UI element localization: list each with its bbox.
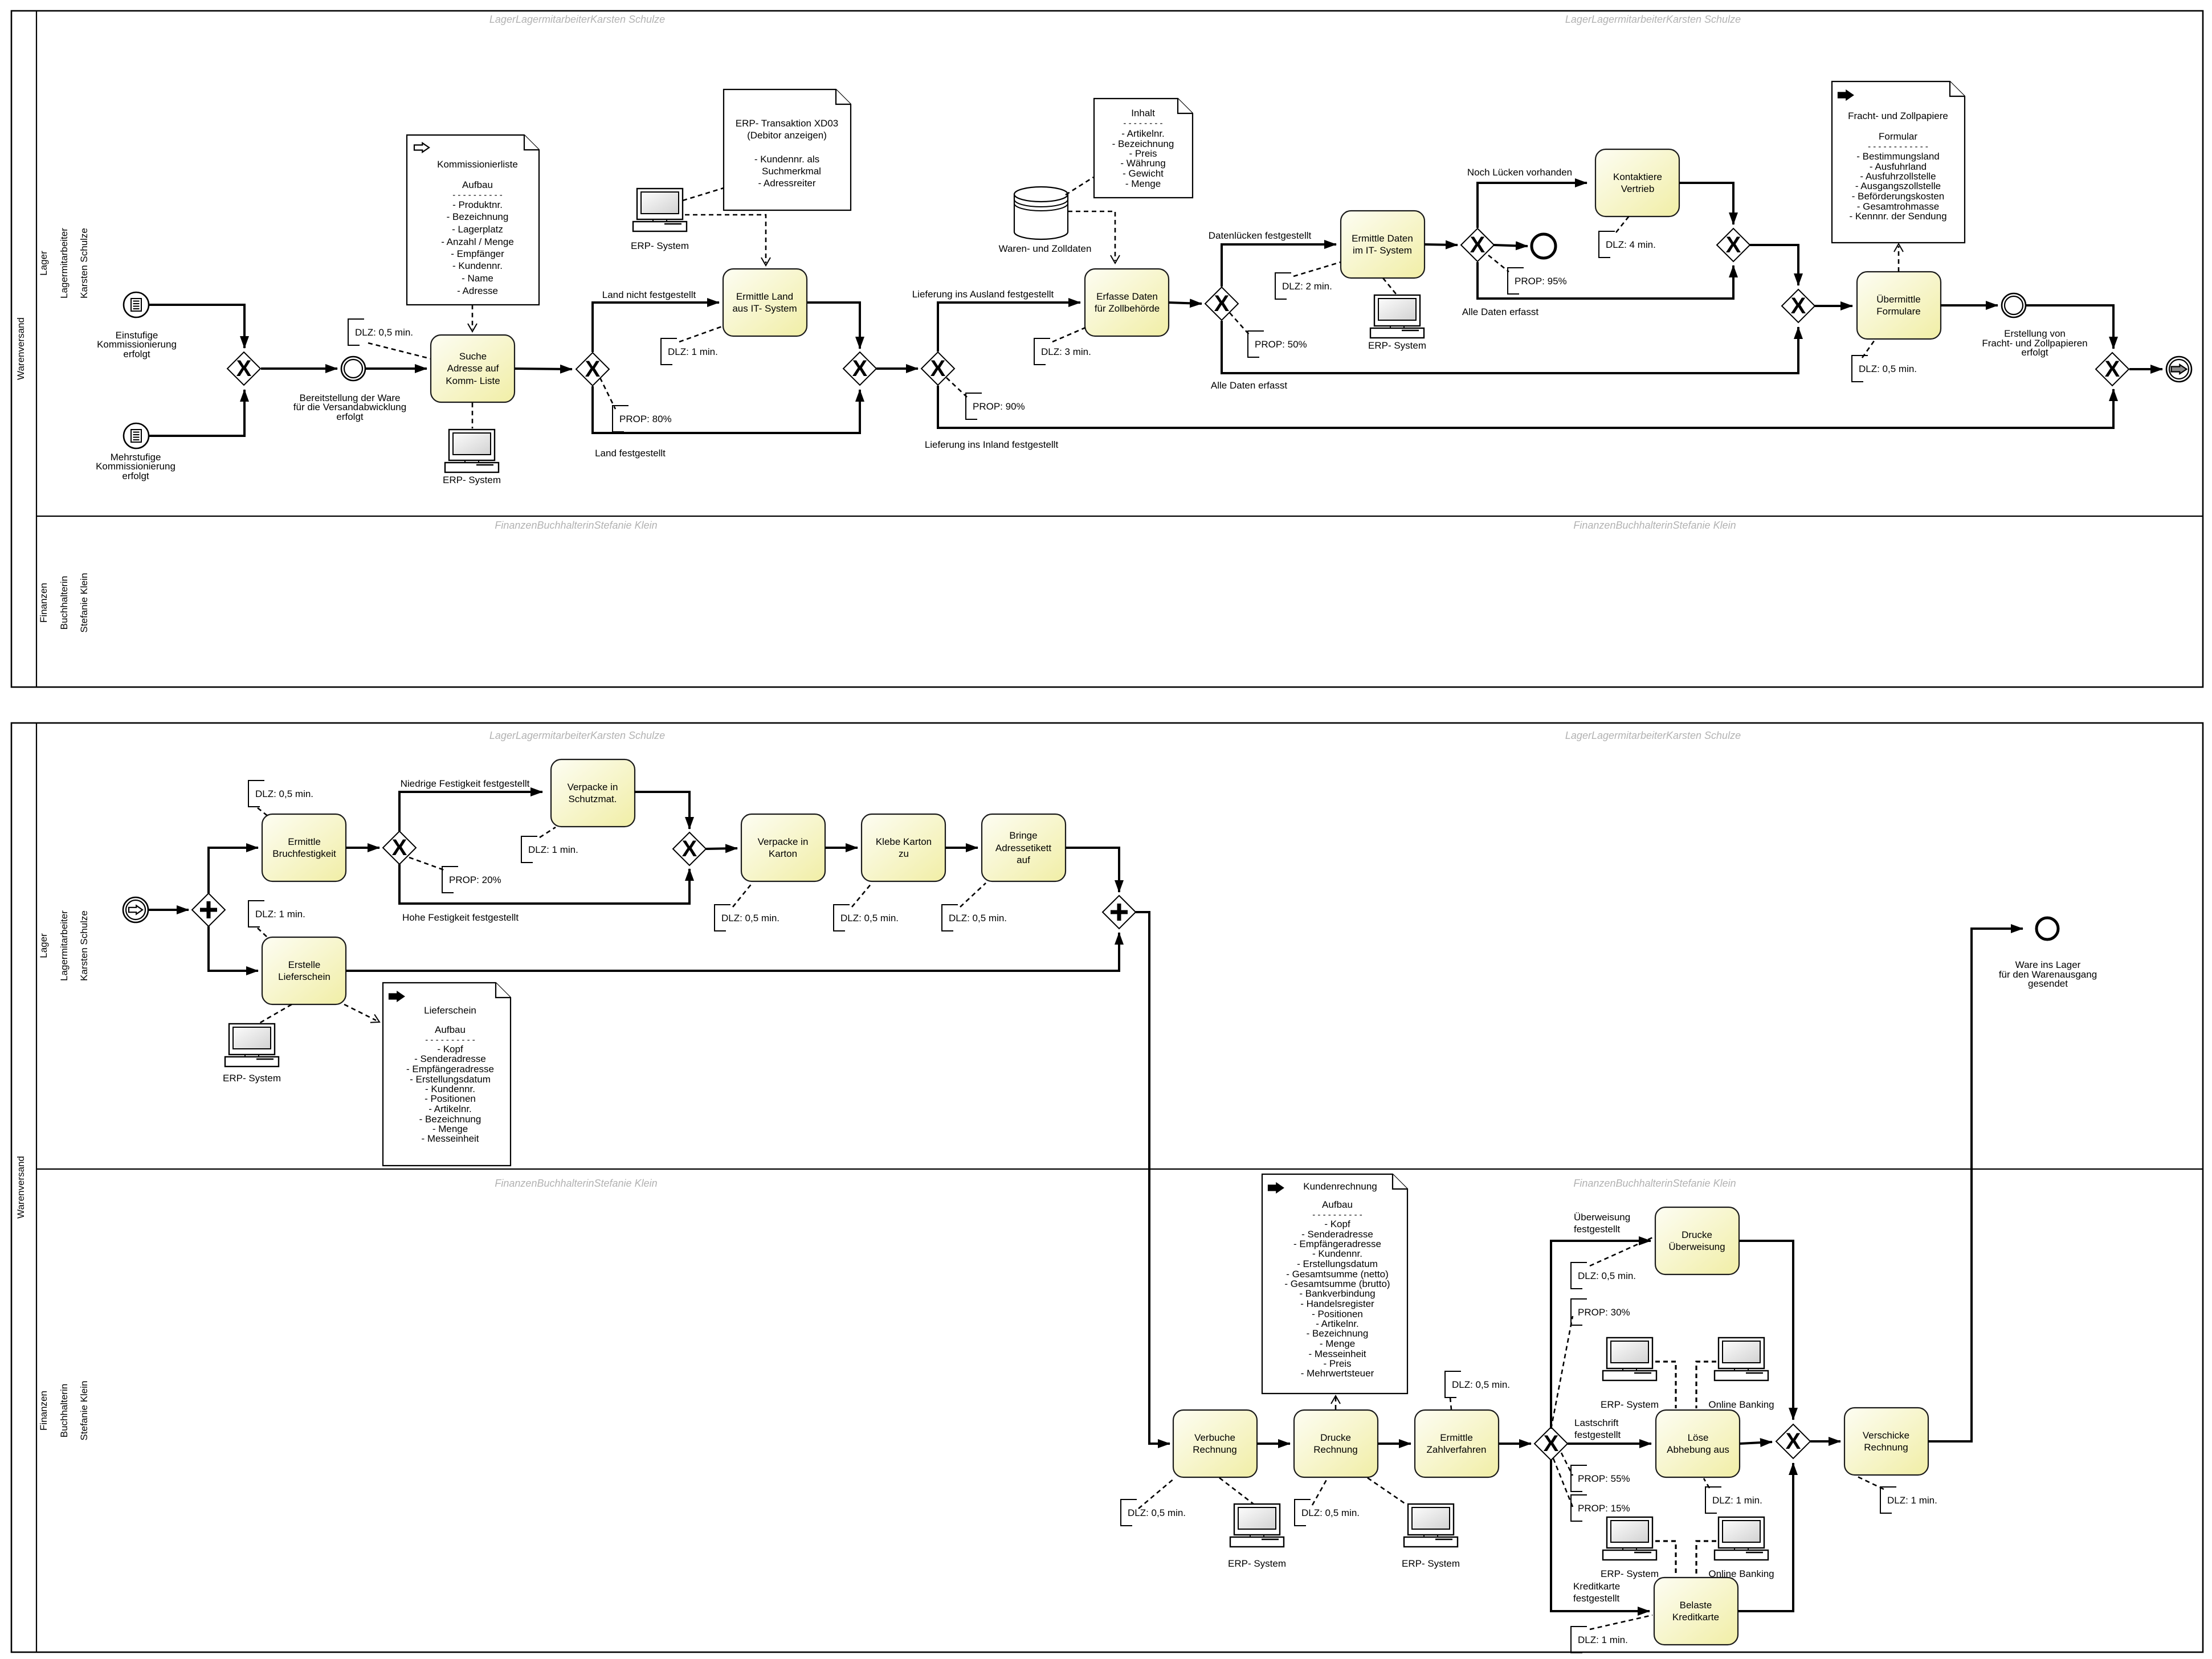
svg-text:LagerLagermitarbeiterKarsten S: LagerLagermitarbeiterKarsten Schulze (1565, 14, 1741, 25)
assoc DLZ to Ermittle Zahlverfahren (1450, 1398, 1451, 1409)
svg-text:FinanzenBuchhalterinStefanie K: FinanzenBuchhalterinStefanie Klein (495, 1178, 657, 1189)
wire start to G10 (148, 909, 189, 911)
wire task Suche Adresse to gateway G2 (515, 369, 572, 369)
svg-text:PROP: 55%: PROP: 55% (1578, 1473, 1630, 1484)
svg-text:DLZ: 0,5 min.: DLZ: 0,5 min. (255, 788, 313, 799)
svg-text:ERP- System: ERP- System (631, 240, 689, 251)
annotation PROP 15% (1571, 1495, 1587, 1521)
task Erstelle Lieferschein (262, 937, 346, 1004)
intermediate event Erstellung von Fracht- und Zollpapieren (2002, 293, 2026, 317)
svg-text:Aufbau: Aufbau (1322, 1199, 1353, 1210)
svg-text:Überweisung: Überweisung (1668, 1241, 1725, 1252)
task Belaste Kreditkarte (1654, 1578, 1738, 1645)
svg-text:Kontaktiere: Kontaktiere (1613, 171, 1662, 182)
svg-text:X: X (930, 356, 946, 381)
assoc Drucke Rechnung to computer (1368, 1478, 1406, 1504)
svg-text:Karsten Schulze: Karsten Schulze (79, 228, 89, 299)
svg-text:- Menge: - Menge (1125, 178, 1161, 189)
wire G12 to task Verpacke in Karton (706, 848, 737, 849)
assoc Online Banking to Belaste Kreditkarte (1696, 1541, 1716, 1576)
svg-text:Inhalt: Inhalt (1131, 108, 1155, 118)
wire G7 to G8 (1750, 245, 1798, 285)
svg-text:Buchhalterin: Buchhalterin (59, 576, 70, 630)
wire G15 to Verschicke Rechnung (1810, 1440, 1840, 1443)
pool Warenversand (bottom) (11, 723, 2203, 1652)
svg-text:Niedrige Festigkeit festgestel: Niedrige Festigkeit festgestellt (401, 778, 530, 789)
svg-text:erfolgt: erfolgt (123, 349, 150, 359)
svg-text:- - - - - - - - - - - -: - - - - - - - - - - - - (1868, 142, 1928, 152)
wire Lieferschein to G13 (bottom) (346, 933, 1119, 971)
wire G4 to G9 (Inland, bottom return) (938, 386, 2113, 428)
svg-text:ERP- System: ERP- System (443, 475, 501, 485)
svg-text:Rechnung: Rechnung (1193, 1444, 1237, 1455)
wire G1 to intermediate event (261, 367, 337, 370)
svg-text:Bruchfestigkeit: Bruchfestigkeit (272, 848, 336, 859)
svg-text:Kommissionierliste: Kommissionierliste (437, 159, 518, 170)
data object Inhalt (1094, 99, 1193, 198)
annotation PROP 30% (1571, 1299, 1587, 1325)
svg-text:Lieferung ins Inland festgeste: Lieferung ins Inland festgestellt (925, 439, 1059, 450)
task Drucke Rechnung (1294, 1410, 1378, 1477)
annotation PROP 95% (1508, 268, 1524, 294)
assoc DLZ to task Lieferschein (258, 928, 268, 938)
wire Drucke Rechnung to Ermittle Zahlverfahren (1378, 1443, 1411, 1445)
svg-text:(Debitor anzeigen): (Debitor anzeigen) (747, 130, 827, 141)
svg-text:Datenlücken festgestellt: Datenlücken festgestellt (1209, 230, 1312, 241)
svg-text:FinanzenBuchhalterinStefanie K: FinanzenBuchhalterinStefanie Klein (1573, 1178, 1736, 1189)
svg-text:Noch Lücken vorhanden: Noch Lücken vorhanden (1467, 167, 1572, 178)
wire G2 to G3 (Land festgestellt) (593, 386, 860, 433)
svg-text:Lieferschein: Lieferschein (278, 971, 330, 982)
task Erfasse Daten fuer Zollbehoerde (1085, 269, 1169, 336)
svg-text:Lagermitarbeiter: Lagermitarbeiter (59, 228, 70, 299)
gateway G15 XOR join (1776, 1424, 1810, 1458)
svg-text:- Messeinheit: - Messeinheit (421, 1133, 479, 1144)
svg-text:ERP- System: ERP- System (1228, 1558, 1286, 1569)
svg-text:Karsten Schulze: Karsten Schulze (79, 910, 89, 981)
wire Uebermittle Formulare to event (1940, 304, 1998, 307)
computer Online Banking (Loese Abhebung) (1715, 1338, 1768, 1380)
task Ermittle Bruchfestigkeit (262, 814, 346, 881)
svg-text:- Bezeichnung: - Bezeichnung (1307, 1328, 1369, 1339)
assoc DLZ 3 min to task (1052, 328, 1085, 342)
svg-text:Alle Daten erfasst: Alle Daten erfasst (1211, 380, 1287, 391)
svg-text:- Artikelnr.: - Artikelnr. (428, 1104, 472, 1114)
svg-text:LagerLagermitarbeiterKarsten S: LagerLagermitarbeiterKarsten Schulze (489, 14, 665, 25)
svg-text:Formulare: Formulare (1876, 306, 1920, 317)
annotation DLZ 4 min (Kontaktiere Vertrieb) (1599, 231, 1615, 258)
assoc DLZ to Klebe Karton (852, 883, 872, 907)
assoc Drucke Rechnung to Kundenrechnung doc (1335, 1397, 1337, 1409)
wire Kontaktiere Vertrieb to G7 (1679, 183, 1733, 224)
assoc Online Banking to Loese Abhebung (1696, 1362, 1716, 1408)
svg-text:- Empfängeradresse: - Empfängeradresse (406, 1064, 494, 1074)
computer ERP-System (Ermittle Daten) (1370, 295, 1424, 338)
svg-text:aus IT- System: aus IT- System (732, 303, 797, 314)
svg-text:FinanzenBuchhalterinStefanie K: FinanzenBuchhalterinStefanie Klein (1573, 520, 1736, 531)
svg-text:Online Banking: Online Banking (1708, 1568, 1774, 1579)
gateway G2 XOR split (Land) (576, 353, 609, 386)
svg-text:PROP: 95%: PROP: 95% (1515, 276, 1567, 287)
annotation DLZ 1 min (Erstelle Lieferschein) (248, 901, 264, 927)
svg-text:Erstelle: Erstelle (288, 959, 321, 970)
intermediate event Bereitstellung der Ware (341, 357, 365, 381)
gateway G10 AND split (192, 893, 225, 926)
annotation DLZ 0,5 min (Ermittle Bruchfestigkeit) (248, 781, 264, 807)
computer ERP-System (Ermittle Land) (633, 189, 687, 231)
svg-text:Übermittle: Übermittle (1876, 294, 1920, 305)
data store Waren- und Zolldaten (1014, 187, 1068, 239)
assoc DLZ to Verbuche Rechnung (1138, 1478, 1175, 1509)
assoc PROP 90% to G4 (946, 378, 967, 397)
svg-text:Bringe: Bringe (1009, 830, 1037, 841)
svg-text:Finanzen: Finanzen (38, 583, 49, 623)
svg-text:X: X (1544, 1431, 1559, 1456)
data object Kommissionierliste (407, 135, 539, 305)
wire G3 to G4 (876, 367, 918, 370)
assoc PROP 15% to G14 (1553, 1458, 1573, 1507)
assoc arrowhead into task Ermittle Land (761, 258, 770, 265)
task Klebe Karton zu (862, 814, 945, 881)
assoc arrowhead into Fracht doc (1894, 244, 1903, 252)
annotation PROP 50% (1248, 331, 1264, 357)
svg-text:DLZ: 0,5 min.: DLZ: 0,5 min. (1452, 1379, 1510, 1390)
annotation DLZ 1 min (Verpacke in Schutzmat) (521, 836, 537, 863)
annotation DLZ 0,5 min (Klebe Karton) (834, 905, 850, 931)
assoc DLZ to Loese Abhebung (1704, 1478, 1709, 1488)
svg-text:Ermittle Daten: Ermittle Daten (1352, 233, 1413, 244)
wire Verschicke Rechnung to end event (1928, 929, 2023, 1441)
assoc DLZ to task Bruchfestigkeit (258, 808, 269, 817)
svg-text:- Senderadresse: - Senderadresse (414, 1053, 486, 1064)
svg-text:Abhebung aus: Abhebung aus (1667, 1444, 1729, 1455)
svg-text:Erfasse Daten: Erfasse Daten (1096, 291, 1158, 302)
assoc DLZ to task Suche Adresse (368, 343, 431, 359)
wire G14 to Belaste Kreditkarte (1551, 1460, 1650, 1611)
gateway G3 XOR join (Land) (843, 352, 876, 385)
svg-text:festgestellt: festgestellt (1573, 1593, 1620, 1604)
svg-text:- Adressreiter: - Adressreiter (758, 178, 815, 189)
wire G5 to G8 (Alle Daten erfasst 50%) (1222, 321, 1798, 373)
svg-text:DLZ: 0,5 min.: DLZ: 0,5 min. (949, 913, 1007, 924)
svg-text:- Produktnr.: - Produktnr. (452, 199, 503, 210)
svg-text:Karton: Karton (769, 848, 797, 859)
svg-text:- Erstellungsdatum: - Erstellungsdatum (1297, 1258, 1378, 1269)
svg-text:Schutzmat.: Schutzmat. (568, 794, 617, 804)
annotation DLZ 0,5 min (Ermittle Zahlverfahren) (1445, 1371, 1461, 1398)
svg-text:Waren- und Zolldaten: Waren- und Zolldaten (999, 243, 1092, 254)
svg-text:- Positionen: - Positionen (425, 1093, 476, 1104)
assoc arrowhead into Lieferschein doc (370, 1015, 382, 1027)
assoc cylinder to Inhalt doc (1066, 177, 1093, 195)
annotation PROP 55% (1571, 1465, 1587, 1492)
svg-text:Vertrieb: Vertrieb (1621, 183, 1655, 194)
wire Erfasse Daten to G5 (1169, 303, 1202, 304)
svg-text:Ermittle Land: Ermittle Land (736, 291, 793, 302)
assoc PROP 20% to G11 (409, 857, 444, 870)
svg-text:Rechnung: Rechnung (1864, 1442, 1908, 1453)
svg-text:- - - - - - - - - -: - - - - - - - - - - (452, 190, 502, 200)
task Ermittle Land aus IT- System (723, 269, 807, 336)
svg-text:Verpacke in: Verpacke in (758, 836, 809, 847)
svg-text:X: X (1214, 291, 1230, 316)
svg-text:Klebe Karton: Klebe Karton (876, 836, 932, 847)
svg-text:X: X (236, 356, 252, 381)
svg-text:X: X (1726, 232, 1741, 258)
svg-text:DLZ: 1 min.: DLZ: 1 min. (1887, 1495, 1937, 1506)
svg-text:DLZ: 0,5 min.: DLZ: 0,5 min. (1128, 1507, 1186, 1518)
wire G10 to task Ermittle Bruchfestigkeit (209, 848, 258, 893)
svg-text:DLZ: 0,5 min.: DLZ: 0,5 min. (721, 913, 779, 924)
svg-text:Aufbau: Aufbau (462, 179, 493, 190)
wire Ermittle Daten to G6 (1425, 244, 1458, 245)
assoc DLZ to Belaste Kreditkarte (1590, 1615, 1652, 1629)
gateway G1 XOR join (start merge) (227, 352, 260, 385)
svg-text:Komm- Liste: Komm- Liste (446, 375, 500, 386)
task Verpacke in Schutzmat (551, 759, 635, 827)
assoc DLZ to task Schutzmat (540, 827, 556, 837)
svg-text:DLZ: 2 min.: DLZ: 2 min. (1282, 281, 1332, 292)
end event (Alle Daten erfasst, 95%) (1532, 234, 1556, 258)
gateway G13 AND join (1103, 896, 1136, 929)
wire G11 to task Verpacke in Schutzmat (399, 792, 542, 831)
annotation DLZ 0,5 min (Suche Adresse) (348, 319, 364, 345)
data object ERP-Transaktion XD03 (724, 89, 851, 210)
assoc DLZ to Bringe Adressetikett (960, 883, 986, 907)
task Verpacke in Karton (741, 814, 825, 881)
svg-text:Stefanie Klein: Stefanie Klein (79, 1381, 89, 1441)
svg-text:erfolgt: erfolgt (122, 471, 149, 481)
start event Einstufige Kommissionierung erfolgt (124, 292, 149, 317)
svg-text:Adressetikett: Adressetikett (995, 843, 1052, 853)
assoc task Suche Adresse to ERP computer (472, 403, 474, 428)
wire G13 to task Verbuche Rechnung (1136, 912, 1170, 1444)
svg-text:- Bankverbindung: - Bankverbindung (1299, 1288, 1375, 1299)
task Verbuche Rechnung (1173, 1410, 1257, 1477)
assoc task Uebermittle to Fracht doc (1898, 246, 1900, 272)
svg-text:im IT- System: im IT- System (1353, 245, 1412, 256)
assoc DLZ 4 min to task Kontaktiere (1616, 215, 1630, 232)
svg-text:- Kundennr.: - Kundennr. (1312, 1248, 1362, 1259)
svg-text:Kundenrechnung: Kundenrechnung (1303, 1181, 1377, 1192)
wire G9 to final end event (2129, 368, 2162, 370)
end event Ware ins Lager gesendet (2036, 918, 2058, 939)
svg-text:DLZ: 0,5 min.: DLZ: 0,5 min. (840, 913, 899, 924)
svg-text:X: X (392, 835, 407, 860)
gateway G4 XOR split (Ausland/Inland) (921, 352, 954, 385)
svg-text:LagerLagermitarbeiterKarsten S: LagerLagermitarbeiterKarsten Schulze (1565, 730, 1741, 741)
svg-text:Überweisung: Überweisung (1574, 1212, 1630, 1223)
svg-text:- Bestimmungsland: - Bestimmungsland (1856, 151, 1940, 162)
assoc PROP 50% to G5 (1230, 313, 1249, 334)
svg-text:ERP- Transaktion XD03: ERP- Transaktion XD03 (736, 118, 838, 129)
svg-text:Lager: Lager (38, 933, 49, 958)
svg-text:- Beförderungskosten: - Beförderungskosten (1852, 191, 1945, 202)
svg-text:Lastschrift: Lastschrift (1574, 1417, 1619, 1428)
svg-text:Formular: Formular (1879, 131, 1917, 142)
assoc computer to XD03 doc (683, 188, 724, 201)
wire G5 to task Ermittle Daten (Datenluecken) (1222, 244, 1336, 287)
wire event to G9 (2026, 305, 2113, 349)
task Kontaktiere Vertrieb (1595, 149, 1679, 216)
assoc Kommissionierliste to task (472, 305, 474, 329)
svg-text:ERP- System: ERP- System (1368, 340, 1426, 351)
svg-text:Ermittle: Ermittle (288, 836, 321, 847)
svg-text:FinanzenBuchhalterinStefanie K: FinanzenBuchhalterinStefanie Klein (495, 520, 657, 531)
svg-text:- Name: - Name (462, 273, 493, 284)
svg-text:- Artikelnr.: - Artikelnr. (1121, 128, 1165, 139)
computer ERP-System (Belaste Kreditkarte) (1603, 1517, 1656, 1560)
svg-text:X: X (585, 357, 601, 382)
assoc DLZ to task Uebermittle (1862, 340, 1875, 358)
svg-text:- Lagerplatz: - Lagerplatz (452, 224, 503, 235)
svg-text:X: X (1470, 232, 1485, 258)
computer ERP-System (Suche Adresse) (445, 430, 499, 472)
svg-text:festgestellt: festgestellt (1574, 1429, 1621, 1440)
svg-text:Warenversand: Warenversand (15, 317, 26, 380)
svg-text:Drucke: Drucke (1320, 1432, 1351, 1443)
data object Kundenrechnung (1262, 1174, 1407, 1394)
svg-text:ERP- System: ERP- System (1402, 1558, 1460, 1569)
task Uebermittle Formulare (1857, 272, 1941, 339)
svg-text:Kreditkarte: Kreditkarte (1573, 1581, 1620, 1592)
gateway G12 XOR join (Festigkeit) (673, 832, 706, 865)
computer ERP-System (Verbuche Rechnung) (1230, 1504, 1284, 1547)
annotation DLZ 3 min (Erfasse Daten) (1034, 338, 1050, 365)
wire Ermittle Land to G3 (807, 303, 860, 349)
assoc ERP to Belaste Kreditkarte (1655, 1541, 1676, 1576)
gateway G6 XOR split (nach Ermittle Daten) (1461, 228, 1494, 261)
end event (final, top pool) (2166, 357, 2191, 382)
svg-text:DLZ: 1 min.: DLZ: 1 min. (668, 346, 718, 357)
assoc task Lieferschein to computer (259, 1004, 292, 1023)
wire Verbuche to Drucke Rechnung (1257, 1443, 1290, 1445)
svg-text:gesendet: gesendet (2028, 978, 2068, 989)
assoc computer to task Ermittle Land (685, 215, 766, 263)
assoc arrowhead into task Suche Adresse (468, 324, 477, 332)
svg-text:erfolgt: erfolgt (2021, 347, 2048, 358)
svg-text:Hohe Festigkeit festgestellt: Hohe Festigkeit festgestellt (402, 912, 519, 923)
task Drucke Ueberweisung (1655, 1207, 1739, 1274)
gateway G11 XOR split (Festigkeit) (383, 831, 416, 864)
svg-text:- Mehrwertsteuer: - Mehrwertsteuer (1301, 1368, 1374, 1379)
assoc DLZ to Verschicke Rechnung (1858, 1477, 1884, 1489)
assoc arrowhead into Kundenrechnung doc (1331, 1396, 1340, 1404)
svg-text:ERP- System: ERP- System (1601, 1399, 1659, 1410)
gateway G8 XOR join (1782, 289, 1815, 322)
svg-text:X: X (1786, 1429, 1801, 1454)
task Ermittle Daten im IT- System (1341, 211, 1425, 278)
svg-text:Warenversand: Warenversand (15, 1156, 26, 1219)
svg-text:festgestellt: festgestellt (1574, 1224, 1621, 1235)
gateway G5 XOR split (Datenluecken) (1205, 287, 1238, 320)
svg-text:DLZ: 3 min.: DLZ: 3 min. (1041, 346, 1091, 357)
svg-text:- - - - - - - -: - - - - - - - - (1123, 118, 1162, 128)
assoc PROP 95% to G6 (1488, 255, 1509, 272)
svg-text:Stefanie Klein: Stefanie Klein (79, 573, 89, 633)
svg-text:Verpacke in: Verpacke in (568, 782, 618, 792)
data object Lieferschein (383, 983, 511, 1166)
task Bringe Adressetikett auf (982, 814, 1066, 881)
wire start1 to gateway G1 (149, 305, 244, 348)
assoc task Lieferschein to doc (344, 1004, 376, 1020)
svg-text:Online Banking: Online Banking (1708, 1399, 1774, 1410)
annotation DLZ 0,5 min (Verbuche Rechnung) (1121, 1499, 1137, 1526)
pool Warenversand (top) (11, 11, 2203, 687)
svg-text:LagerLagermitarbeiterKarsten S: LagerLagermitarbeiterKarsten Schulze (489, 730, 665, 741)
svg-text:- Adresse: - Adresse (457, 285, 498, 296)
svg-text:ERP- System: ERP- System (1601, 1568, 1659, 1579)
svg-text:Kreditkarte: Kreditkarte (1672, 1612, 1719, 1623)
svg-text:PROP: 80%: PROP: 80% (619, 414, 672, 424)
wire G10 to task Erstelle Lieferschein (209, 926, 258, 971)
svg-text:für Zollbehörde: für Zollbehörde (1095, 303, 1160, 314)
wire Schutzmat to G12 (634, 792, 689, 829)
svg-text:- Bezeichnung: - Bezeichnung (447, 211, 509, 222)
svg-text:Suchmerkmal: Suchmerkmal (762, 166, 821, 177)
assoc DLZ 2 min to task Ermittle Daten (1293, 262, 1341, 276)
wire Ermittle Zahlverfahren to G14 (1499, 1443, 1531, 1445)
svg-text:Lieferung ins Ausland festgest: Lieferung ins Ausland festgestellt (912, 289, 1054, 300)
wire G2 to task Ermittle Land (Land nicht festgestellt) (593, 303, 719, 352)
svg-text:Fracht- und Zollpapiere: Fracht- und Zollpapiere (1848, 111, 1948, 121)
svg-text:PROP: 15%: PROP: 15% (1578, 1503, 1630, 1514)
annotation DLZ 0,5 min (Uebermittle Formulare) (1852, 355, 1868, 382)
wire G6 to G7 (Alle Daten erfasst) (1478, 262, 1733, 299)
svg-text:Suche: Suche (459, 351, 487, 362)
annotation DLZ 1 min (Belaste Kreditkarte) (1571, 1627, 1587, 1653)
assoc PROP 80% to G2 (600, 378, 615, 409)
svg-text:auf: auf (1017, 855, 1030, 865)
wire Adressetikett to G13 (1066, 848, 1119, 892)
svg-text:Finanzen: Finanzen (38, 1391, 49, 1431)
assoc PROP 30% to G14 (1551, 1316, 1573, 1429)
svg-text:DLZ: 0,5 min.: DLZ: 0,5 min. (1859, 363, 1917, 374)
svg-text:Löse: Löse (1688, 1432, 1709, 1443)
svg-text:ERP- System: ERP- System (223, 1073, 281, 1084)
wire G6 to end event (1493, 245, 1528, 246)
svg-text:PROP: 50%: PROP: 50% (1255, 339, 1307, 350)
svg-text:X: X (1791, 293, 1806, 318)
annotation PROP 80% (613, 406, 628, 432)
svg-text:X: X (2105, 357, 2120, 382)
assoc DLZ to Verpacke in Karton (733, 883, 752, 907)
svg-text:Lager: Lager (38, 251, 49, 276)
svg-text:Verschicke: Verschicke (1863, 1430, 1909, 1441)
svg-text:Aufbau: Aufbau (435, 1024, 466, 1035)
svg-text:DLZ: 0,5 min.: DLZ: 0,5 min. (1578, 1270, 1636, 1281)
wire G4 to task Erfasse Daten (Ausland) (938, 303, 1080, 352)
annotation DLZ 2 min (Ermittle Daten) (1275, 273, 1291, 299)
task Suche Adresse auf Komm- Liste (431, 335, 515, 402)
svg-text:erfolgt: erfolgt (336, 411, 364, 422)
svg-text:Drucke: Drucke (1682, 1229, 1712, 1240)
svg-text:- Kopf: - Kopf (1324, 1219, 1350, 1229)
svg-text:DLZ: 0,5 min.: DLZ: 0,5 min. (355, 327, 413, 338)
svg-text:DLZ: 1 min.: DLZ: 1 min. (1712, 1495, 1762, 1506)
gateway G7 XOR join (1717, 228, 1750, 261)
svg-text:Lagermitarbeiter: Lagermitarbeiter (59, 910, 70, 981)
wire G14 to Drucke Ueberweisung (1551, 1241, 1651, 1427)
svg-text:Rechnung: Rechnung (1313, 1444, 1358, 1455)
wire Klebe Karton to Bringe Adressetikett (945, 847, 978, 849)
svg-text:zu: zu (899, 848, 909, 859)
svg-text:Zahlverfahren: Zahlverfahren (1427, 1444, 1487, 1455)
assoc cylinder to task Erfasse Daten (1068, 211, 1115, 261)
svg-text:- Menge: - Menge (1320, 1338, 1355, 1349)
svg-text:Lieferschein: Lieferschein (424, 1005, 476, 1016)
assoc DLZ to Drucke Rechnung (1312, 1478, 1328, 1505)
